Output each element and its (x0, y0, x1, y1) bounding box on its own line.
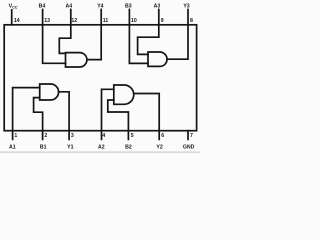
wire gate U1D output to pin 11 Y4 (87, 10, 101, 60)
svg-text:8: 8 (190, 18, 193, 24)
svg-text:6: 6 (161, 133, 164, 139)
svg-text:5: 5 (131, 133, 134, 139)
svg-text:A3: A3 (154, 3, 161, 9)
svg-text:Y3: Y3 (183, 3, 189, 9)
AND gate U1D (66, 53, 87, 67)
svg-text:13: 13 (44, 18, 50, 24)
pin 7 GND lead (187, 131, 189, 140)
svg-text:3: 3 (71, 133, 74, 139)
wire gate U1A output to pin 3 Y1 (59, 92, 70, 140)
svg-text:A1: A1 (9, 144, 16, 150)
svg-text:7: 7 (190, 133, 193, 139)
AND gate U1B (114, 85, 134, 104)
svg-text:B2: B2 (125, 144, 132, 150)
svg-text:A2: A2 (98, 144, 105, 150)
svg-text:14: 14 (14, 18, 20, 24)
pin 2 lead wire to gate U1A input B1 (34, 98, 43, 140)
svg-text:B3: B3 (125, 3, 132, 9)
svg-text:9: 9 (161, 18, 164, 24)
svg-text:11: 11 (103, 18, 109, 24)
pin 9 lead wire to gate U1C input A3 (138, 10, 159, 55)
pin 12 lead wire to gate U1D input A4 (59, 10, 71, 54)
pin 14 Vcc lead (11, 10, 13, 25)
AND gate U1C (148, 52, 167, 66)
svg-text:Y1: Y1 (67, 144, 73, 150)
pin 4 lead wire to gate U1B input A2 (102, 89, 114, 139)
svg-text:B1: B1 (40, 144, 47, 150)
svg-text:VCC: VCC (9, 4, 18, 10)
svg-text:10: 10 (131, 18, 137, 24)
AND gate U1A (40, 84, 59, 100)
svg-text:GND: GND (183, 144, 195, 150)
svg-text:2: 2 (44, 133, 47, 139)
pin 1 lead wire to gate U1A input A1 (13, 88, 40, 140)
wire gate U1C output to pin 8 Y3 (167, 10, 188, 60)
pin 13 lead wire to gate U1D input B4 (43, 10, 66, 64)
svg-text:A4: A4 (65, 3, 72, 9)
IC package body U1 (4, 25, 196, 131)
svg-text:Y4: Y4 (97, 3, 103, 9)
svg-text:12: 12 (71, 18, 77, 24)
svg-text:1: 1 (14, 133, 17, 139)
svg-text:4: 4 (102, 133, 105, 139)
pin 10 lead wire to gate U1C input B3 (129, 10, 148, 64)
svg-text:Y2: Y2 (156, 144, 162, 150)
pin 5 lead wire to gate U1B input B2 (108, 100, 129, 139)
wire gate U1B output to pin 6 Y2 (134, 94, 159, 140)
svg-text:B4: B4 (39, 3, 46, 9)
